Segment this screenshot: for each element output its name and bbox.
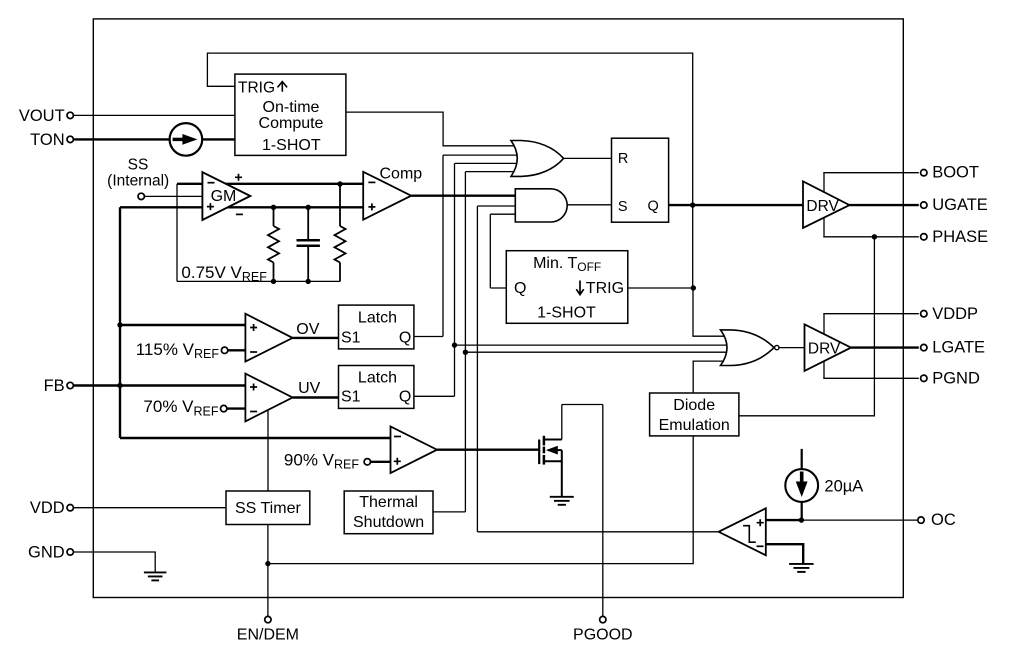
svg-text:PGND: PGND <box>932 369 980 387</box>
svg-text:OC: OC <box>931 511 956 529</box>
svg-text:S1: S1 <box>341 388 361 405</box>
svg-text:Latch: Latch <box>358 309 397 326</box>
svg-text:Q: Q <box>648 198 659 214</box>
svg-text:Q: Q <box>399 329 411 346</box>
svg-text:TRIG: TRIG <box>586 280 624 297</box>
svg-text:GM: GM <box>211 188 237 205</box>
svg-text:S: S <box>618 199 628 215</box>
svg-text:20µA: 20µA <box>824 478 863 496</box>
svg-text:SS Timer: SS Timer <box>235 500 301 517</box>
svg-text:SS: SS <box>128 156 149 173</box>
svg-text:TRIG: TRIG <box>238 79 275 96</box>
svg-text:S1: S1 <box>341 329 361 346</box>
svg-text:EN/DEM: EN/DEM <box>237 627 299 644</box>
svg-text:FB: FB <box>44 377 65 395</box>
svg-text:Comp: Comp <box>380 166 423 183</box>
svg-text:Emulation: Emulation <box>659 417 730 434</box>
svg-text:1-SHOT: 1-SHOT <box>262 137 321 154</box>
svg-text:DRV: DRV <box>806 198 839 215</box>
svg-text:BOOT: BOOT <box>932 163 979 181</box>
svg-text:Q: Q <box>399 388 411 405</box>
svg-text:On-time: On-time <box>263 99 320 116</box>
svg-text:PHASE: PHASE <box>932 228 988 246</box>
svg-text:VDD: VDD <box>30 499 65 517</box>
svg-text:PGOOD: PGOOD <box>573 627 633 644</box>
svg-text:Diode: Diode <box>673 397 715 414</box>
svg-text:DRV: DRV <box>808 340 841 357</box>
svg-text:Compute: Compute <box>259 115 324 132</box>
svg-text:1-SHOT: 1-SHOT <box>537 304 596 321</box>
svg-text:R: R <box>618 151 628 167</box>
svg-text:UGATE: UGATE <box>932 196 988 214</box>
svg-text:UV: UV <box>298 380 321 397</box>
svg-text:LGATE: LGATE <box>932 339 985 357</box>
svg-text:GND: GND <box>28 543 65 561</box>
svg-text:Thermal: Thermal <box>359 494 418 511</box>
svg-text:Latch: Latch <box>358 369 397 386</box>
svg-text:(Internal): (Internal) <box>107 173 169 190</box>
svg-text:TON: TON <box>30 131 65 149</box>
svg-text:VDDP: VDDP <box>932 305 978 323</box>
svg-text:Q: Q <box>514 280 526 297</box>
svg-text:VOUT: VOUT <box>19 107 65 125</box>
svg-text:Shutdown: Shutdown <box>353 514 424 531</box>
svg-text:OV: OV <box>296 321 319 338</box>
